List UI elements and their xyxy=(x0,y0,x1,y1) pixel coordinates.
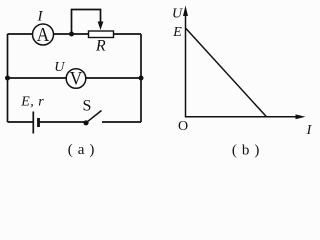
battery E,r xyxy=(33,112,38,134)
graph line U = E - I r xyxy=(186,28,267,117)
wire middle branch (voltmeter) xyxy=(8,77,142,79)
svg-text:U: U xyxy=(54,60,65,75)
wire bottom from battery to switch xyxy=(40,121,87,123)
svg-text:V: V xyxy=(70,68,83,89)
svg-text:(b): (b) xyxy=(232,143,265,159)
svg-text:O: O xyxy=(178,119,188,134)
svg-text:R: R xyxy=(95,38,106,55)
wire left vertical xyxy=(7,34,9,122)
svg-text:(a): (a) xyxy=(68,142,100,158)
wire bottom from switch to right corner xyxy=(102,121,141,123)
switch S xyxy=(83,111,101,126)
svg-text:U: U xyxy=(172,7,183,22)
node dot right (middle branch) xyxy=(139,76,144,81)
svg-text:E: E xyxy=(172,25,182,40)
graph axis U (vertical) xyxy=(183,6,188,118)
node dot left (middle branch) xyxy=(5,76,10,81)
wire top from left corner to ammeter xyxy=(8,33,34,35)
voltmeter V xyxy=(66,68,86,89)
svg-text:I: I xyxy=(37,8,44,24)
node junction dot top (slider tap) xyxy=(69,32,74,37)
svg-text:E, r: E, r xyxy=(20,95,44,110)
ammeter A xyxy=(33,24,54,46)
wire top from resistor to right corner xyxy=(114,33,142,35)
svg-text:A: A xyxy=(37,24,50,46)
wire bottom from left corner to battery xyxy=(8,121,33,123)
resistor R (rheostat body) xyxy=(89,31,114,38)
svg-text:S: S xyxy=(83,98,92,115)
wire top from ammeter to resistor xyxy=(53,33,89,35)
wire right vertical xyxy=(140,34,142,122)
graph axis I (horizontal) xyxy=(186,114,306,119)
wire rheostat slider with arrow xyxy=(72,10,104,35)
